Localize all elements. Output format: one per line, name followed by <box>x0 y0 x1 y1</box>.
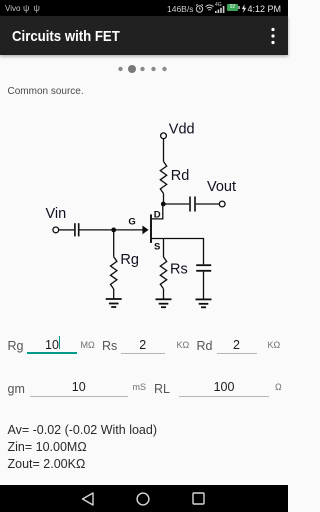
node gate junction <box>111 228 116 233</box>
ground Rs <box>156 299 172 307</box>
transistor Q1 drain lead <box>152 205 163 219</box>
nav home <box>136 492 150 506</box>
wire source to Rs <box>163 239 165 258</box>
svg-text:Vout: Vout <box>207 179 236 195</box>
wire output cap to Vout <box>196 203 220 205</box>
svg-text:G: G <box>128 216 135 227</box>
nav recents <box>192 492 205 505</box>
resistor Rs <box>160 257 166 289</box>
ground Cs <box>196 299 212 307</box>
app bar <box>0 16 288 55</box>
wire Rg to ground <box>113 289 115 299</box>
wire gate node to Rg <box>113 230 115 257</box>
caption <box>8 86 84 97</box>
alarm icon <box>195 4 204 13</box>
capacitor Cin <box>74 223 76 236</box>
resistor Rd <box>160 162 166 194</box>
terminal Vin <box>53 227 59 233</box>
nav bar <box>0 485 288 512</box>
svg-text:Rs: Rs <box>170 261 188 277</box>
wire Vdd to Rd <box>163 139 165 162</box>
battery <box>227 4 238 11</box>
transistor Q1 channel bar <box>150 214 152 243</box>
wire Rs to ground <box>163 289 165 300</box>
transistor Q1 source lead / wire source to bypass cap <box>152 239 204 265</box>
svg-text:S: S <box>154 241 160 252</box>
page indicator dots <box>0 0 288 80</box>
resistor Rg <box>111 257 117 289</box>
transistor Q1 gate arrow <box>142 226 148 235</box>
input row 1 <box>8 339 24 353</box>
wire drain node to output cap <box>163 203 189 205</box>
wire input cap to gate <box>80 229 143 231</box>
results <box>8 424 158 437</box>
wire bypass cap to ground <box>203 272 205 300</box>
input row 2 <box>8 382 25 396</box>
wire Vin to input cap <box>59 229 74 231</box>
wire Rd to drain node <box>163 194 165 205</box>
overflow menu dots <box>268 27 278 45</box>
ground Rg <box>106 299 122 307</box>
terminal Vout <box>219 201 225 207</box>
capacitor Cout <box>189 197 191 212</box>
wifi icon <box>205 4 214 12</box>
charging bolt <box>241 4 247 13</box>
terminal Vdd <box>161 133 167 139</box>
svg-text:Rg: Rg <box>120 252 139 268</box>
signal bars <box>215 5 225 13</box>
nav back <box>81 492 95 506</box>
svg-text:Vin: Vin <box>46 206 67 222</box>
status bar <box>0 0 288 16</box>
svg-text:Vdd: Vdd <box>169 122 195 138</box>
svg-text:Rd: Rd <box>171 168 190 184</box>
node drain junction <box>161 202 166 207</box>
capacitor Cs bypass <box>196 264 211 266</box>
